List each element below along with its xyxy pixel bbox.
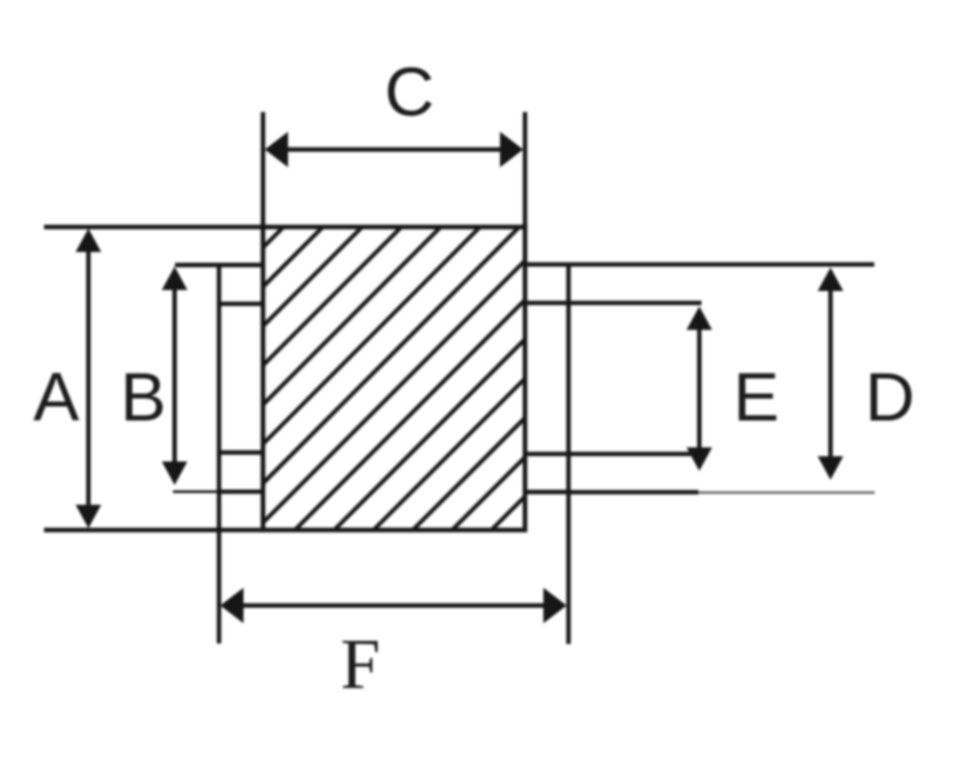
left boss inner step line (top) [217, 302, 263, 306]
dimension C arrow [265, 132, 523, 168]
extension line E bottom (collinear with right boss inner step) [525, 452, 694, 456]
extension line B top [175, 263, 219, 267]
svg-text:B: B [120, 359, 166, 436]
extension line F right (collinear with right boss edge) [566, 492, 570, 644]
left boss outline [217, 265, 264, 492]
extension line C right (collinear with part right edge) [523, 112, 527, 227]
left boss inner step line (bottom) [217, 450, 263, 454]
extension line A top (collinear with part top edge) [44, 225, 263, 229]
extension line E top (collinear with right boss inner step) [525, 301, 702, 305]
extension line A bottom (collinear with part bottom edge) [44, 528, 263, 532]
dimension F arrow [220, 588, 566, 624]
dimension A arrow [76, 229, 102, 529]
part body (hatched square), outline [263, 227, 525, 530]
dimension D arrow [818, 268, 844, 480]
svg-text:D: D [865, 359, 915, 436]
extension line B bottom (thin) [173, 490, 217, 493]
extension line D top (collinear with right boss top) [523, 262, 874, 266]
svg-text:C: C [385, 54, 435, 131]
dimension B arrow [162, 267, 188, 485]
extension line C left (above part, collinear with part left edge) [261, 112, 265, 227]
extension line F left (collinear with left boss edge) [217, 492, 221, 644]
svg-text:F: F [341, 625, 381, 704]
dimension E arrow [687, 306, 713, 471]
right boss outline [525, 264, 569, 492]
svg-text:A: A [33, 359, 79, 436]
hatch lines of part body [0, 225, 796, 533]
extension line D bottom, thick inner segment [569, 490, 699, 494]
extension line D bottom, thin grey outer segment [699, 491, 875, 493]
svg-text:E: E [733, 359, 779, 436]
